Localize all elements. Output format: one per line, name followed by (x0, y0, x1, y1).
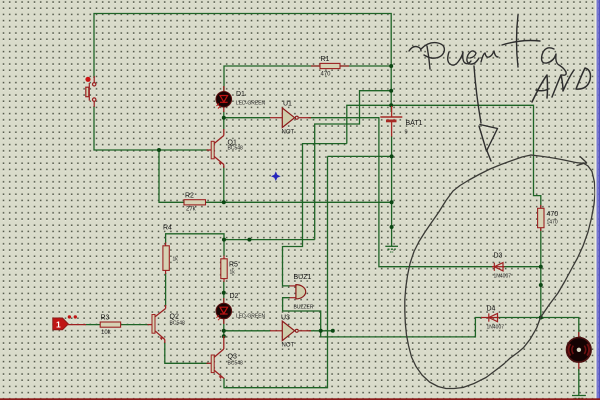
svg-text:LED-GREEN: LED-GREEN (236, 314, 266, 320)
svg-text:R5: R5 (229, 262, 238, 269)
svg-text:BAT1: BAT1 (406, 120, 423, 127)
handwriting arrow (474, 66, 498, 161)
svg-text:470: 470 (321, 72, 332, 78)
op-amp U3 NOT gate (270, 315, 311, 349)
svg-text:BC548: BC548 (228, 145, 244, 151)
wire battery- H2 branch (328, 155, 392, 157)
svg-text:27k: 27k (186, 207, 197, 213)
transistor Q1 BC548 (207, 129, 224, 168)
wire switch bottom to Q1 base row (94, 106, 208, 150)
right edge scrollbar (595, 0, 596, 400)
wire U3 output (309, 330, 333, 332)
svg-text:Q2: Q2 (170, 314, 179, 321)
svg-text:1: 1 (56, 320, 61, 330)
svg-text:BC548: BC548 (228, 360, 244, 366)
wire battery loop A (315, 91, 392, 240)
svg-text:U3: U3 (281, 315, 290, 322)
svg-text:1N4007: 1N4007 (494, 274, 512, 280)
wire U1 output to D3 (309, 118, 494, 267)
wire Q1 emitter drop (223, 166, 225, 202)
wire R2 branch (159, 150, 184, 202)
origin marker (271, 171, 281, 181)
wire R4 R5 junction row (224, 239, 315, 241)
svg-text:470: 470 (547, 211, 559, 218)
svg-text:R2: R2 (185, 193, 194, 200)
svg-text:R1: R1 (321, 56, 330, 63)
wire buzzer bottom to D4 (283, 298, 482, 337)
wire D2 bottom to Q3 collector (223, 320, 225, 338)
wire battery+ to 470 resistor (347, 105, 541, 207)
resistor R4 (163, 225, 178, 275)
wire Q2 emitter to Q3 base (165, 342, 208, 363)
LED D1 (216, 86, 266, 112)
svg-text:D2: D2 (230, 293, 239, 300)
wire V3 battery- to Q3 emitter (224, 156, 328, 387)
resistor R5 (221, 256, 238, 283)
svg-text:10k: 10k (101, 330, 112, 336)
resistor R1 (311, 56, 349, 78)
wire to R5 top (223, 240, 225, 256)
wire Q1 collector to D1 (223, 111, 225, 130)
svg-text:R3: R3 (101, 315, 110, 322)
svg-text:BUZ1: BUZ1 (294, 274, 312, 281)
wire battery- column to ground (391, 136, 393, 246)
svg-text:9: 9 (405, 130, 408, 136)
svg-text:1k: 1k (173, 257, 179, 263)
wire R3 right to Q2 base (121, 324, 149, 326)
wire D4 to motor (499, 318, 579, 338)
svg-text:NOT: NOT (282, 343, 295, 349)
svg-text:U1: U1 (283, 101, 292, 108)
svg-text:NOT: NOT (282, 130, 295, 136)
resistor R3 (100, 315, 120, 337)
wire 470 column down (540, 229, 542, 318)
op-amp U1 NOT gate (270, 101, 311, 136)
LED D2 (216, 293, 266, 324)
resistor R2 (184, 193, 206, 213)
wire R5 bottom to D2 (223, 281, 225, 303)
switch SW1 pushbutton (86, 76, 96, 107)
diode D3 1N4007 (492, 263, 505, 271)
ground motor (572, 396, 586, 399)
buzzer BUZ1 (290, 274, 314, 311)
ground battery (385, 246, 398, 252)
svg-text:D1: D1 (236, 91, 245, 98)
handwriting AND (532, 68, 590, 102)
diode D4 1N4007 (481, 313, 499, 321)
wire buzzer top branch (283, 144, 347, 286)
svg-text:1N4007: 1N4007 (487, 325, 505, 331)
bottom edge bar (0, 398, 600, 400)
svg-text:1470: 1470 (547, 220, 558, 226)
svg-text:D3: D3 (494, 253, 503, 260)
wire R4 bottom to Q2 collector (165, 273, 167, 306)
wire D3 to 470 column (504, 266, 541, 268)
motor M1 (567, 332, 592, 396)
transistor Q2 BC548 (148, 305, 166, 343)
node junction dots (157, 64, 543, 338)
wire R4 top (166, 234, 224, 244)
svg-text:BUZZER: BUZZER (294, 305, 314, 311)
svg-text:D4: D4 (487, 305, 496, 312)
wire emitter rail Q1 to battery- (206, 201, 392, 203)
wire top power rail (94, 14, 391, 113)
svg-text:LED-GREEN: LED-GREEN (236, 101, 266, 107)
transistor Q3 BC548 (207, 336, 225, 379)
svg-text:R4: R4 (163, 225, 172, 232)
wire R1 row (224, 66, 391, 107)
svg-text:1k: 1k (230, 270, 236, 276)
resistor 470 (538, 205, 559, 231)
logic probe 1 (53, 315, 86, 330)
svg-text:BC548: BC548 (170, 321, 186, 327)
wire U1 input (224, 117, 270, 119)
handwriting Puerta (409, 15, 566, 75)
handwriting circle loop (405, 155, 595, 389)
wire R3 left (86, 324, 101, 326)
battery BAT1 (380, 106, 402, 137)
wire U3 input (224, 330, 270, 332)
